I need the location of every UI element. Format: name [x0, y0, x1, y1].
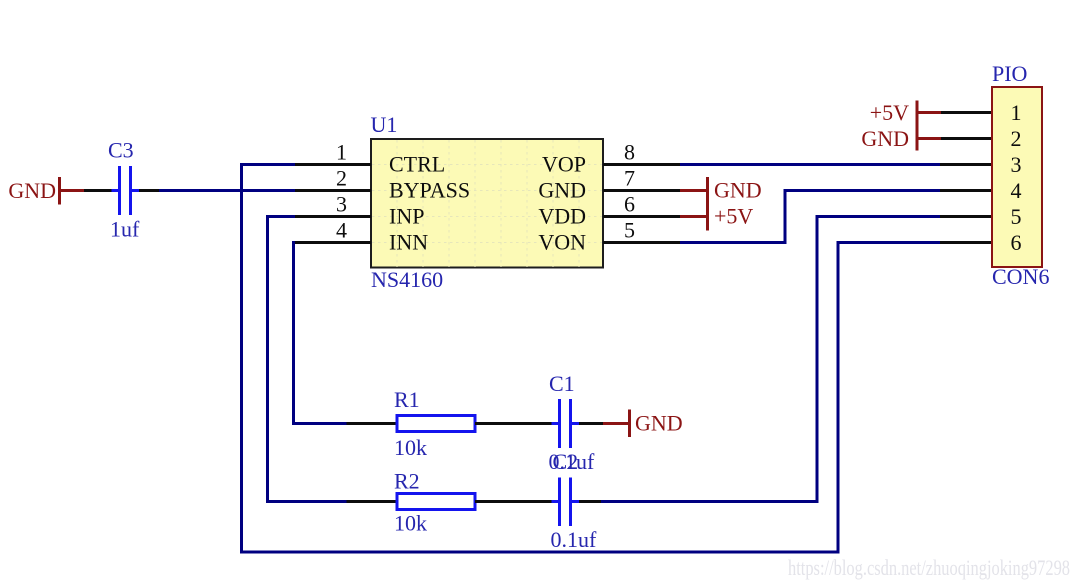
pin 5 U1 VON stub: [603, 218, 680, 243]
svg-text:5: 5: [1011, 204, 1022, 229]
svg-text:R1: R1: [394, 387, 420, 412]
svg-text:CON6: CON6: [992, 264, 1049, 289]
svg-text:GND: GND: [861, 126, 909, 151]
wire pin1 net vertical down: [240, 163, 243, 554]
connector CON6 PIO: [992, 61, 1049, 289]
pin 3 U1 INP stub: [295, 192, 371, 217]
pin 7 U1 GND stub: [603, 166, 680, 191]
svg-text:6: 6: [624, 192, 635, 217]
wire bottom horizontal: [240, 551, 840, 554]
wire pin4 INN vertical down to R1: [292, 241, 295, 425]
wire PIO pin5 stub: [940, 215, 992, 218]
ground GND left of C3: [8, 177, 84, 205]
svg-text:6: 6: [1011, 230, 1022, 255]
wire pin5 net vertical up: [784, 189, 787, 244]
svg-text:0.1uf: 0.1uf: [551, 527, 598, 552]
wire pin5 VON horizontal: [680, 241, 787, 244]
ground GND right of C1: [603, 410, 683, 438]
pin 6 U1 VDD stub: [603, 192, 680, 217]
svg-text:GND: GND: [8, 178, 56, 203]
pin 2 U1 BYPASS stub: [295, 166, 371, 191]
svg-text:C1: C1: [549, 371, 575, 396]
power +5V U1 pin6: [680, 204, 753, 229]
svg-text:+5V: +5V: [870, 100, 909, 125]
svg-text:GND: GND: [714, 178, 762, 203]
svg-text:8: 8: [624, 140, 635, 165]
wire PIO pin4 horizontal: [785, 189, 940, 192]
wire GND to C3: [84, 189, 112, 192]
wire C2 right black: [579, 500, 601, 503]
resistor R1: [394, 387, 475, 460]
wire PIO pin2 stub: [941, 137, 992, 140]
svg-text:1: 1: [336, 140, 347, 165]
power GND U1 pin7: [680, 177, 762, 231]
svg-text:C3: C3: [108, 138, 134, 163]
wire R2 row left blue: [266, 500, 347, 503]
svg-text:C2: C2: [553, 449, 579, 474]
wire PIO pin5 horizontal: [817, 215, 940, 218]
svg-text:R2: R2: [394, 469, 420, 494]
wire R1 left lead black: [347, 422, 398, 425]
capacitor C3: [108, 138, 140, 242]
wire pin8 VOP to PIO pin3: [680, 163, 940, 166]
svg-text:10k: 10k: [394, 511, 427, 536]
pin 4 U1 INN stub: [295, 218, 371, 243]
svg-text:3: 3: [1011, 152, 1022, 177]
wire pin3 INP horizontal: [266, 215, 295, 218]
svg-text:INN: INN: [389, 230, 428, 255]
wire PIO pin3 stub: [940, 163, 992, 166]
wire C3 to pin2 BYPASS: [159, 189, 295, 192]
resistor R2: [394, 469, 475, 536]
power GND PIO pin2: [861, 126, 941, 151]
wire PIO pin6 horizontal: [838, 241, 940, 244]
svg-text:10k: 10k: [394, 435, 427, 460]
svg-text:INP: INP: [389, 204, 424, 229]
wire C2 to PIO pin5 vertical net: [601, 500, 819, 503]
wire PIO pin1 stub: [941, 111, 992, 114]
svg-text:VDD: VDD: [538, 204, 586, 229]
svg-text:NS4160: NS4160: [371, 267, 443, 292]
svg-text:1uf: 1uf: [110, 217, 140, 242]
svg-text:5: 5: [624, 218, 635, 243]
svg-text:https://blog.csdn.net/zhuoqing: https://blog.csdn.net/zhuoqingjoking9729…: [788, 555, 1070, 580]
power +5V PIO pin1: [870, 100, 941, 151]
pin 1 U1 CTRL stub: [295, 140, 371, 165]
svg-text:3: 3: [336, 192, 347, 217]
capacitor C2: [551, 449, 598, 552]
svg-text:PIO: PIO: [992, 61, 1027, 86]
op-amp U1: [371, 112, 604, 292]
svg-text:2: 2: [1011, 126, 1022, 151]
wire vertical up to PIO pin5: [816, 215, 819, 503]
wire pin1 net horizontal: [240, 163, 295, 166]
svg-text:1: 1: [1011, 100, 1022, 125]
wire C1 right black: [579, 422, 603, 425]
wire R2 to C2 black: [475, 500, 552, 503]
svg-text:2: 2: [336, 166, 347, 191]
svg-text:CTRL: CTRL: [389, 152, 445, 177]
wire C3 right black segment: [139, 189, 159, 192]
svg-text:GND: GND: [538, 178, 586, 203]
pin 8 U1 VOP stub: [603, 140, 680, 165]
wire PIO pin6 stub: [940, 241, 992, 244]
svg-text:BYPASS: BYPASS: [389, 178, 470, 203]
wire R2 left lead black: [347, 500, 398, 503]
svg-text:U1: U1: [371, 112, 398, 137]
wire R1 to C1 black: [475, 422, 552, 425]
wire pin3 net vertical down to R2: [266, 215, 269, 503]
wire PIO pin4 stub: [940, 189, 992, 192]
svg-text:7: 7: [624, 166, 635, 191]
svg-text:+5V: +5V: [714, 204, 753, 229]
svg-text:VON: VON: [538, 230, 586, 255]
svg-text:4: 4: [336, 218, 347, 243]
svg-text:GND: GND: [635, 411, 683, 436]
svg-text:VOP: VOP: [542, 152, 586, 177]
svg-text:4: 4: [1011, 178, 1022, 203]
capacitor C1: [549, 371, 596, 474]
wire R1 row left blue: [292, 422, 347, 425]
wire bottom up to PIO pin6: [837, 241, 840, 554]
